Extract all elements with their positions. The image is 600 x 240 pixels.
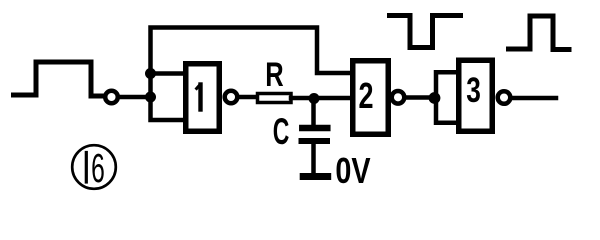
wire input terminal to node A xyxy=(119,95,151,100)
figure number 16 text xyxy=(86,145,105,191)
gate U2 output bubble xyxy=(392,91,405,104)
gate U1 box xyxy=(186,64,220,132)
wire feedback: node A up, across top, down to gate 2 upper input xyxy=(151,28,353,121)
node C junction dot xyxy=(429,92,441,104)
gate U3 output bubble xyxy=(498,91,511,104)
capacitor C bottom plate xyxy=(302,138,328,144)
output wire xyxy=(512,96,556,101)
svg-text:3: 3 xyxy=(466,70,481,110)
wire resistor to gate 2 lower input through node B xyxy=(291,96,352,101)
svg-text:2: 2 xyxy=(358,75,373,116)
node A lower junction dot xyxy=(145,92,156,103)
gate U1 label 1 xyxy=(197,85,201,110)
wire node B down to capacitor xyxy=(311,98,316,126)
wire U1 output to resistor R xyxy=(238,95,258,100)
gate U2 box xyxy=(353,61,389,135)
node B junction dot xyxy=(309,93,320,104)
figure number 16 circle xyxy=(72,145,116,189)
svg-text:C: C xyxy=(273,110,290,152)
svg-text:0V: 0V xyxy=(335,150,370,191)
output waveform (positive pulse) xyxy=(509,16,570,50)
svg-text:R: R xyxy=(265,57,284,94)
wire U2 output to node C xyxy=(405,95,432,100)
gate U3 tied-input bracket wire xyxy=(436,72,458,122)
svg-text:6: 6 xyxy=(91,145,105,191)
wire node A upper stub to gate 1 upper input xyxy=(151,71,186,76)
capacitor C top plate xyxy=(302,125,327,132)
node A upper junction dot xyxy=(145,68,156,79)
resistor R xyxy=(258,94,292,103)
ground 0V bar xyxy=(303,173,328,180)
waveform at U2 output (negative pulse) xyxy=(390,16,461,48)
input terminal circle xyxy=(105,91,118,104)
gate U1 output bubble xyxy=(225,91,238,104)
gate U3 box xyxy=(459,60,493,131)
input waveform xyxy=(14,62,105,96)
wire capacitor to ground xyxy=(311,144,316,173)
